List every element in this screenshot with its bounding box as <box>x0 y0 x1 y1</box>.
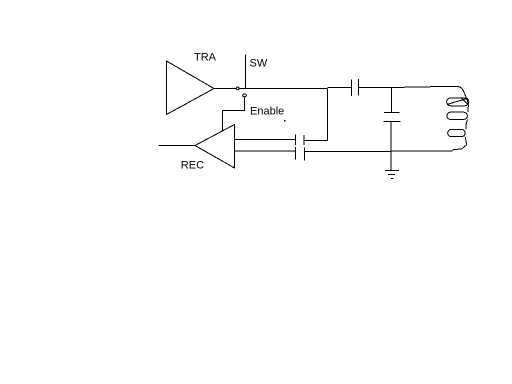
wire enable line down-left to REC <box>223 97 245 131</box>
capacitor C1 upper coupling cap <box>296 135 305 146</box>
inductor L1 loop 1 scribble stroke b <box>461 98 469 106</box>
svg-text:SW: SW <box>250 58 268 70</box>
wire riser to shunt cap <box>391 88 393 113</box>
wire bus from C3 to coil top <box>359 86 449 87</box>
capacitor C3 series tuning cap plates <box>352 79 359 96</box>
inductor L1 loop 1 scribble stroke a <box>447 98 468 104</box>
wire main output bus from TRA apex to coil <box>214 88 352 89</box>
svg-text:REC: REC <box>181 160 204 172</box>
ground <box>385 171 399 179</box>
wire SW control line <box>245 55 247 89</box>
capacitor C2 lower coupling cap <box>296 147 305 160</box>
inductor L1 antenna coil right edge <box>448 86 468 150</box>
wire C1 right to bus riser <box>304 89 328 141</box>
inductor L1 loop 1 <box>447 98 469 106</box>
wire bottom bus from C2 to coil <box>305 150 453 153</box>
wire REC output to the left <box>159 145 196 147</box>
wire shunt cap down to ground <box>390 122 392 171</box>
capacitor C4 shunt cap plates <box>384 113 401 122</box>
stray dot <box>284 120 286 122</box>
node junction on bus (open dot) <box>236 87 239 90</box>
op-amp U1 TRA transmit buffer <box>167 61 215 115</box>
inductor L1 loop 3 <box>448 129 466 136</box>
node enable tap (open dot) <box>243 94 247 97</box>
op-amp U2 REC receive buffer <box>195 125 235 169</box>
inductor L1 loop 2 <box>447 112 468 119</box>
svg-text:TRA: TRA <box>194 52 217 64</box>
wire REC lower input to C2 <box>235 150 296 152</box>
wire REC upper input to C1 <box>235 139 296 141</box>
svg-text:Enable: Enable <box>250 106 284 118</box>
